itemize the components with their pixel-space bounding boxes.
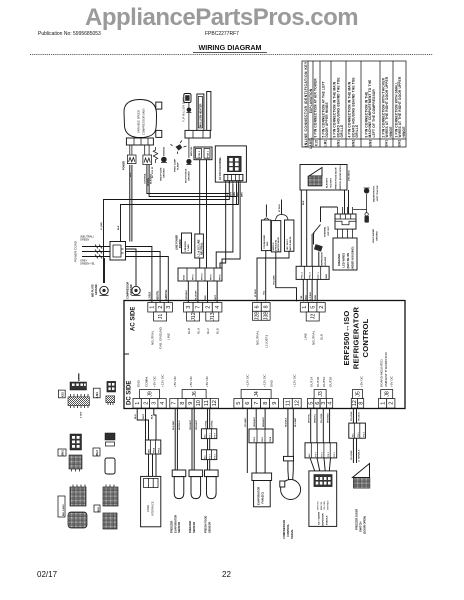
svg-text:PIN 8: PIN 8 bbox=[211, 274, 213, 280]
ground: mullion key symbol bbox=[186, 103, 191, 113]
svg-text:CONTROL: CONTROL bbox=[361, 318, 370, 357]
compressor connector block bbox=[126, 138, 153, 145]
water valve hot inlet bbox=[285, 220, 294, 251]
svg-text:EXPLANATION: EXPLANATION bbox=[309, 88, 313, 113]
svg-text:5: 5 bbox=[311, 306, 317, 309]
svg-text:LABEL: LABEL bbox=[309, 137, 313, 149]
ground: mid plate ground bbox=[92, 258, 109, 297]
connector J4 bbox=[234, 390, 279, 409]
svg-text:RED: RED bbox=[205, 295, 207, 300]
svg-text:SENSOR: SENSOR bbox=[192, 522, 196, 533]
svg-text:BRN/YEL: BRN/YEL bbox=[315, 413, 317, 423]
wire taco drop 2 bbox=[216, 184, 233, 268]
svg-text:BRN: BRN bbox=[241, 192, 243, 197]
svg-text:CONTROL: CONTROL bbox=[145, 173, 147, 184]
svg-text:PTC 1: PTC 1 bbox=[318, 272, 320, 279]
connector: fresh food sensor blocks bbox=[201, 429, 216, 460]
svg-text:BRN/YEL: BRN/YEL bbox=[191, 146, 193, 156]
DC pin labels bbox=[137, 351, 394, 387]
wire taco drop 3 bbox=[236, 184, 238, 205]
svg-text:MULLION HEATER: MULLION HEATER bbox=[199, 103, 203, 127]
svg-text:22: 22 bbox=[222, 570, 231, 579]
svg-text:+12V DC: +12V DC bbox=[246, 374, 250, 387]
svg-text:FIRST LAMP: FIRST LAMP bbox=[174, 158, 177, 172]
svg-text:PIN 4: PIN 4 bbox=[269, 436, 272, 442]
svg-text:4: 4 bbox=[215, 306, 221, 309]
compressor terminal square bottom bbox=[156, 130, 162, 137]
svg-text:PIN 3: PIN 3 bbox=[328, 451, 330, 457]
svg-text:WIRING DIAGRAM: WIRING DIAGRAM bbox=[198, 43, 261, 52]
svg-text:BLK: BLK bbox=[118, 225, 120, 230]
svg-text:GND: GND bbox=[137, 379, 141, 387]
svg-text:FREEZER: FREEZER bbox=[170, 521, 174, 533]
power plug connector symbol bbox=[123, 155, 137, 177]
heater: mullion heater element bbox=[197, 92, 211, 131]
svg-text:YEL/GRN: YEL/GRN bbox=[321, 413, 323, 423]
svg-text:PIN 6: PIN 6 bbox=[315, 451, 317, 457]
inline connector BN1 drawing bbox=[58, 434, 82, 472]
svg-text:PCB 2: PCB 2 bbox=[199, 150, 201, 157]
svg-text:FREEZER: FREEZER bbox=[185, 241, 187, 252]
svg-text:EVAPORATOR: EVAPORATOR bbox=[257, 487, 261, 505]
condenser fan bbox=[261, 218, 270, 251]
ground: compressor area ground dot bbox=[186, 159, 192, 183]
svg-text:COMM.: COMM. bbox=[145, 376, 149, 387]
svg-text:BH1: BH1 bbox=[95, 450, 99, 456]
wire mullion ground drop bbox=[188, 113, 190, 159]
svg-text:PIN 5: PIN 5 bbox=[210, 453, 212, 459]
svg-text:J4: J4 bbox=[254, 391, 260, 397]
svg-text:UNDER HOUSING): UNDER HOUSING) bbox=[351, 247, 355, 270]
svg-text:BLU: BLU bbox=[306, 295, 308, 300]
svg-text:OUT2B: OUT2B bbox=[328, 377, 332, 387]
inline connector BN3 drawing bbox=[94, 485, 118, 530]
svg-text:BN3: BN3 bbox=[98, 506, 100, 511]
wire compressor signal elbows bbox=[147, 165, 237, 197]
svg-text:BRN/WHT: BRN/WHT bbox=[263, 416, 265, 427]
inline connector BH1 drawing bbox=[93, 433, 115, 474]
svg-text:REFRIGERATOR: REFRIGERATOR bbox=[352, 306, 361, 369]
svg-text:2: 2 bbox=[143, 402, 149, 405]
svg-text:PTC 3: PTC 3 bbox=[302, 272, 304, 279]
svg-text:PIN 6: PIN 6 bbox=[215, 432, 217, 438]
svg-text:1: 1 bbox=[302, 306, 308, 309]
svg-text:LINE: LINE bbox=[167, 333, 171, 340]
svg-text:+5V DC: +5V DC bbox=[205, 375, 209, 387]
svg-text:THERMAL: THERMAL bbox=[324, 226, 327, 237]
svg-text:L1 (GN): L1 (GN) bbox=[101, 222, 103, 230]
connector: mullion plug bbox=[184, 94, 191, 103]
inline connector K15 drawing bbox=[58, 373, 89, 418]
svg-text:HOLDER: HOLDER bbox=[325, 256, 327, 266]
connector J13 bbox=[203, 303, 222, 322]
svg-text:J8: J8 bbox=[385, 391, 391, 397]
svg-text:J12: J12 bbox=[191, 312, 197, 320]
lamp: freezer lamp bbox=[171, 141, 187, 173]
svg-text:MB3: MB3 bbox=[326, 273, 328, 278]
connector J3B bbox=[261, 303, 270, 321]
label box: freezer load bbox=[182, 233, 192, 253]
svg-text:WHT/RED: WHT/RED bbox=[327, 413, 329, 423]
svg-text:BLU/GRY: BLU/GRY bbox=[196, 290, 198, 300]
svg-text:LOAD: LOAD bbox=[187, 244, 190, 251]
wire hot valve to J3B bbox=[266, 251, 289, 301]
svg-text:(YEL/BLU): (YEL/BLU) bbox=[349, 170, 351, 181]
svg-text:BLK/WHT: BLK/WHT bbox=[327, 177, 329, 188]
wire compressor power pair bbox=[130, 145, 132, 155]
fuse: defrost thermostat bbox=[314, 244, 327, 268]
svg-text:WATER VALVE: WATER VALVE bbox=[289, 236, 292, 251]
svg-text:2: 2 bbox=[389, 402, 395, 405]
svg-text:AppliancePartsPros.com: AppliancePartsPros.com bbox=[85, 4, 358, 31]
connector bar MB3 (right) bbox=[296, 266, 329, 279]
svg-text:PIN 1: PIN 1 bbox=[358, 431, 360, 437]
inline connector LM1 drawing bbox=[93, 381, 115, 405]
svg-text:LED WIRES: LED WIRES bbox=[342, 253, 346, 268]
svg-text:FREEZER: FREEZER bbox=[188, 521, 192, 533]
svg-text:J3B: J3B bbox=[264, 311, 270, 320]
header rule bbox=[30, 54, 433, 56]
svg-text:8: 8 bbox=[358, 402, 364, 405]
wire fan riser bbox=[265, 205, 267, 217]
svg-text:INTERFACE: INTERFACE bbox=[151, 501, 155, 516]
svg-text:K15: K15 bbox=[60, 392, 64, 397]
svg-text:NEUTRL: NEUTRL bbox=[157, 290, 160, 300]
svg-text:BH1: BH1 bbox=[385, 139, 389, 146]
svg-text:12: 12 bbox=[295, 400, 301, 406]
svg-text:DOOR UPPER HINGE: DOOR UPPER HINGE bbox=[325, 102, 329, 137]
svg-text:RLB: RLB bbox=[187, 328, 191, 334]
wire switch box drops bbox=[301, 190, 306, 266]
svg-text:GROUND: GROUND bbox=[164, 168, 166, 178]
ground: compressor ground bbox=[127, 262, 141, 299]
svg-text:COMPRESSOR: COMPRESSOR bbox=[282, 520, 286, 539]
svg-text:J13: J13 bbox=[210, 312, 216, 320]
svg-text:DC SIDE: DC SIDE bbox=[127, 381, 133, 405]
svg-text:12: 12 bbox=[212, 400, 218, 406]
svg-text:AC VOL 20: AC VOL 20 bbox=[151, 166, 154, 178]
svg-text:PIN 10: PIN 10 bbox=[202, 273, 204, 280]
connector J1 bbox=[148, 303, 173, 322]
switch box: fresh food door switch bbox=[300, 165, 347, 191]
svg-text:+5V DC: +5V DC bbox=[173, 375, 177, 387]
connector J5 bbox=[351, 390, 364, 409]
connector J8 bbox=[379, 390, 395, 409]
svg-text:11: 11 bbox=[286, 400, 292, 406]
svg-text:FRESH FOOD: FRESH FOOD bbox=[204, 516, 208, 533]
title WIRING DIAGRAM bbox=[193, 43, 267, 53]
connector J2 bbox=[300, 303, 325, 322]
label box: L1 and DC line bbox=[195, 234, 204, 258]
svg-text:8: 8 bbox=[180, 402, 186, 405]
svg-text:+12V DC: +12V DC bbox=[293, 374, 297, 387]
svg-text:RED/BLK: RED/BLK bbox=[286, 417, 288, 427]
svg-text:J9: J9 bbox=[147, 391, 153, 397]
svg-text:FREEZER DOOR: FREEZER DOOR bbox=[355, 509, 359, 530]
svg-text:+5V DC: +5V DC bbox=[390, 375, 394, 387]
svg-text:PIN 2: PIN 2 bbox=[334, 451, 336, 457]
svg-text:USER: USER bbox=[146, 505, 150, 512]
svg-text:NEUTRAL: NEUTRAL bbox=[151, 330, 155, 345]
wire compressor power drop bbox=[130, 165, 132, 242]
svg-text:OUT1B: OUT1B bbox=[316, 377, 320, 387]
svg-text:WHT/RED: WHT/RED bbox=[327, 500, 329, 510]
svg-text:WHT/YEL: WHT/YEL bbox=[308, 413, 310, 423]
svg-text:ERF2500↔ISO: ERF2500↔ISO bbox=[342, 311, 351, 366]
svg-text:MODULE: MODULE bbox=[327, 515, 329, 525]
svg-text:2: 2 bbox=[205, 306, 211, 309]
svg-text:AC TACO HOUSING: AC TACO HOUSING bbox=[219, 157, 222, 180]
wire cutout drop bbox=[311, 234, 313, 266]
svg-text:1: 1 bbox=[380, 402, 386, 405]
svg-text:1: 1 bbox=[135, 402, 141, 405]
switch: thermal cut-out bbox=[313, 207, 338, 245]
svg-text:+5V DC: +5V DC bbox=[189, 375, 193, 387]
svg-text:BN1 & BN2: BN1 & BN2 bbox=[63, 504, 65, 516]
connector block: door harness bbox=[335, 207, 356, 229]
svg-text:YEL/GRN: YEL/GRN bbox=[324, 501, 326, 510]
svg-text:LT BLU: LT BLU bbox=[310, 291, 312, 299]
svg-text:PIN 4: PIN 4 bbox=[153, 447, 156, 453]
svg-text:SENSOR: SENSOR bbox=[207, 522, 211, 533]
svg-text:5: 5 bbox=[236, 402, 242, 405]
svg-text:WHT/YEL: WHT/YEL bbox=[318, 500, 320, 510]
svg-text:LM1: LM1 bbox=[95, 392, 99, 398]
ground: heat plate ground bbox=[160, 147, 168, 181]
svg-text:GRILLE: GRILLE bbox=[340, 125, 344, 138]
svg-text:02/17: 02/17 bbox=[37, 570, 58, 579]
svg-text:J2B: J2B bbox=[255, 311, 261, 320]
svg-text:(MAY BE ON: (MAY BE ON bbox=[346, 253, 350, 269]
svg-text:6: 6 bbox=[255, 305, 261, 308]
svg-text:PIN 1: PIN 1 bbox=[262, 436, 264, 442]
svg-text:BLU: BLU bbox=[135, 414, 137, 419]
connector: UI harness block bbox=[145, 440, 160, 454]
svg-text:2: 2 bbox=[319, 306, 325, 309]
signal: compressor control signal bbox=[280, 408, 301, 539]
water valve middle bbox=[271, 221, 280, 252]
svg-text:HINGE: HINGE bbox=[389, 127, 393, 138]
svg-text:2: 2 bbox=[158, 306, 164, 309]
svg-text:(DOOR OPEN): (DOOR OPEN) bbox=[363, 516, 367, 534]
junction: heater channel splice bbox=[205, 133, 210, 138]
svg-text:ICE / WATER: ICE / WATER bbox=[318, 511, 321, 525]
wire bus upper bbox=[104, 181, 230, 283]
svg-text:NEUTRAL: NEUTRAL bbox=[200, 242, 204, 255]
svg-text:FRESH FOOD DOOR: FRESH FOOD DOOR bbox=[336, 167, 338, 189]
svg-text:HOT INLET: HOT INLET bbox=[287, 238, 289, 250]
compressor terminal square top bbox=[156, 102, 162, 109]
svg-text:GROUND: GROUND bbox=[189, 171, 191, 181]
svg-text:WHT: WHT bbox=[143, 413, 145, 419]
svg-text:CUT-OUT: CUT-OUT bbox=[328, 226, 330, 236]
svg-text:COMPRESSOR: COMPRESSOR bbox=[322, 252, 324, 268]
svg-text:BLK: BLK bbox=[303, 200, 305, 205]
thermistor: sensor-ff bbox=[204, 408, 219, 533]
svg-text:LM1: LM1 bbox=[324, 139, 328, 146]
thermistor: sensor-frz bbox=[188, 408, 203, 533]
board title ERF2500-ISO REFRIGERATOR CONTROL bbox=[342, 306, 370, 369]
inline connector BN1/BN2 drawing pair bbox=[58, 485, 87, 529]
svg-text:PIN 3: PIN 3 bbox=[254, 436, 256, 442]
switch: freezer door switch (door open) bbox=[349, 408, 370, 534]
resistor: AC line zigzag bbox=[151, 147, 158, 178]
svg-text:BLU/WHT: BLU/WHT bbox=[295, 417, 297, 427]
wire mid valve to J2 pin1 bbox=[276, 252, 297, 302]
svg-text:YEL: YEL bbox=[263, 290, 265, 295]
module: dispenser/water module bbox=[305, 408, 337, 526]
thermistor: sensor-frz-evap bbox=[170, 408, 186, 533]
svg-text:OUT2A: OUT2A bbox=[322, 376, 326, 387]
svg-text:LEFT YELLOW: LEFT YELLOW bbox=[377, 185, 379, 201]
svg-text:BH2: BH2 bbox=[398, 139, 402, 146]
connector J3 bbox=[308, 390, 334, 409]
wire cord leads bbox=[82, 245, 110, 259]
svg-text:GND: GND bbox=[270, 379, 274, 387]
svg-text:POWER: POWER bbox=[123, 161, 126, 170]
plug: power plug bbox=[110, 242, 126, 261]
svg-text:MCD: MCD bbox=[184, 275, 186, 280]
wire taco drop 1 bbox=[220, 184, 226, 268]
key: water front left yellow bbox=[353, 185, 379, 210]
svg-text:VARIABLE SPEED: VARIABLE SPEED bbox=[137, 110, 141, 133]
control board U1: ERF2500-ISO refrigerator control bbox=[124, 301, 405, 409]
svg-text:YEL: YEL bbox=[301, 295, 303, 300]
key: hole saver ground bbox=[365, 210, 379, 244]
AC pin labels bbox=[151, 326, 324, 349]
svg-text:Publication No: 5995685053: Publication No: 5995685053 bbox=[38, 31, 101, 37]
connector J12 bbox=[184, 303, 203, 322]
svg-text:HINGE: HINGE bbox=[402, 127, 406, 138]
svg-text:NEUTRAL: NEUTRAL bbox=[256, 330, 260, 345]
svg-text:CONDENSER: CONDENSER bbox=[264, 235, 266, 249]
connector J6 bbox=[170, 390, 219, 409]
svg-text:4: 4 bbox=[327, 402, 333, 405]
junction box: AC taco housing bbox=[215, 146, 246, 182]
svg-text:3: 3 bbox=[152, 402, 158, 405]
svg-text:YEL/GRN: YEL/GRN bbox=[351, 411, 353, 421]
svg-text:WHT/BLK: WHT/BLK bbox=[179, 420, 181, 430]
svg-text:7: 7 bbox=[196, 306, 202, 309]
svg-text:3: 3 bbox=[186, 306, 192, 309]
svg-text:POWER CORD: POWER CORD bbox=[74, 240, 78, 262]
svg-text:LINE: LINE bbox=[304, 333, 308, 340]
svg-text:J3: J3 bbox=[318, 391, 324, 397]
wires J9 to UI board bbox=[135, 408, 156, 440]
svg-text:6: 6 bbox=[245, 402, 251, 405]
wire taco leads with labels bbox=[226, 181, 244, 197]
svg-text:NEUTRAL: NEUTRAL bbox=[312, 330, 316, 345]
svg-text:GROUND: GROUND bbox=[130, 284, 133, 295]
svg-text:CAB. GROUND: CAB. GROUND bbox=[159, 326, 163, 349]
svg-text:BN3: BN3 bbox=[369, 139, 373, 146]
svg-text:K15: K15 bbox=[315, 140, 319, 146]
svg-text:RIGHT HINGE: RIGHT HINGE bbox=[186, 168, 188, 183]
wire plug to J1 pins bbox=[126, 247, 169, 303]
svg-text:BOARD: BOARD bbox=[179, 239, 182, 248]
svg-text:J5: J5 bbox=[355, 391, 361, 397]
board: user interface bbox=[141, 476, 161, 526]
svg-text:BLK: BLK bbox=[152, 414, 154, 419]
svg-text:SENSOR: SENSOR bbox=[177, 522, 181, 533]
box: freezer LED wires bbox=[333, 229, 357, 270]
svg-text:BLK/WHT: BLK/WHT bbox=[173, 420, 175, 430]
svg-text:J2: J2 bbox=[311, 314, 317, 320]
svg-text:LT BLU: LT BLU bbox=[279, 204, 281, 212]
connector bar: mullion hinge connector bbox=[185, 130, 210, 138]
wire bar to J2 bbox=[301, 279, 317, 301]
wire PCB drops to MB3 bar bbox=[200, 160, 207, 268]
svg-text:YEL/WHT: YEL/WHT bbox=[245, 417, 247, 427]
svg-text:PIN 3: PIN 3 bbox=[159, 447, 161, 453]
svg-text:BRN: BRN bbox=[315, 294, 317, 299]
svg-text:HOLE SAVER: HOLE SAVER bbox=[372, 229, 375, 243]
wire valve bracket bbox=[276, 215, 289, 221]
svg-text:BN1: BN1 bbox=[337, 139, 341, 146]
wire fan to J2B bbox=[257, 251, 266, 302]
svg-text:INLINE CONNECTOR IDENTIFICATIO: INLINE CONNECTOR IDENTIFICATION KEY bbox=[304, 61, 308, 147]
svg-text:FLAMP: FLAMP bbox=[177, 162, 180, 170]
svg-text:GRN/YEL: GRN/YEL bbox=[165, 289, 168, 300]
connector bar MB1 (left) bbox=[178, 268, 222, 281]
svg-text:GROUND: GROUND bbox=[95, 284, 98, 295]
svg-text:GRN/WHT: GRN/WHT bbox=[254, 416, 256, 427]
svg-text:J6: J6 bbox=[192, 391, 198, 397]
svg-text:YEL/BLK: YEL/BLK bbox=[359, 412, 361, 421]
svg-text:WATER VALVE: WATER VALVE bbox=[277, 236, 280, 251]
svg-text:SIGNAL: SIGNAL bbox=[290, 529, 294, 539]
svg-text:FAN (DC): FAN (DC) bbox=[261, 492, 265, 504]
compressor: variable speed compressor (INV) bbox=[124, 100, 157, 138]
svg-text:YEL/GRN: YEL/GRN bbox=[351, 450, 353, 460]
svg-text:LT GRN/BLK: LT GRN/BLK bbox=[359, 449, 361, 462]
svg-text:+5V DC: +5V DC bbox=[360, 375, 364, 387]
svg-text:PTC 2: PTC 2 bbox=[310, 272, 312, 279]
svg-text:DISPENSER: DISPENSER bbox=[323, 513, 325, 526]
svg-text:BN1: BN1 bbox=[61, 450, 65, 456]
svg-text:ORG/WHT: ORG/WHT bbox=[190, 419, 192, 430]
svg-text:PCB 1: PCB 1 bbox=[208, 150, 210, 157]
svg-text:8: 8 bbox=[264, 305, 270, 308]
svg-text:PIN 5: PIN 5 bbox=[322, 451, 324, 457]
svg-text:AMBIENT THERMISTOR: AMBIENT THERMISTOR bbox=[384, 351, 388, 387]
svg-text:FPBC2277RF7: FPBC2277RF7 bbox=[205, 31, 239, 37]
svg-text:AC SIDE: AC SIDE bbox=[131, 307, 137, 331]
svg-text:WATER FRONT: WATER FRONT bbox=[373, 185, 376, 202]
svg-text:BRN/YEL: BRN/YEL bbox=[321, 501, 323, 510]
svg-text:11: 11 bbox=[204, 400, 210, 406]
wire bar to J12/J13 bbox=[186, 281, 217, 303]
svg-text:7: 7 bbox=[172, 402, 178, 405]
wire bracket riser to bus bbox=[281, 200, 283, 215]
svg-text:L1 BLK: L1 BLK bbox=[149, 291, 152, 300]
svg-text:8: 8 bbox=[263, 402, 269, 405]
svg-text:9: 9 bbox=[188, 402, 194, 405]
svg-text:9 PIN CONNECTION AT AIR TOWER: 9 PIN CONNECTION AT AIR TOWER bbox=[314, 78, 318, 138]
svg-text:7: 7 bbox=[254, 402, 260, 405]
svg-text:OUT1A: OUT1A bbox=[310, 376, 314, 387]
svg-text:PIN 3: PIN 3 bbox=[210, 432, 212, 438]
svg-text:LEFT OF THE COMPRESSOR: LEFT OF THE COMPRESSOR bbox=[372, 89, 376, 138]
svg-text:YEL/GRN: YEL/GRN bbox=[274, 275, 276, 285]
svg-text:YEL/WHT: YEL/WHT bbox=[331, 177, 333, 188]
svg-text:+12V DC: +12V DC bbox=[161, 374, 165, 387]
svg-text:9: 9 bbox=[272, 402, 278, 405]
svg-text:GREEN: GREEN bbox=[80, 238, 89, 242]
svg-text:GROUND: GROUND bbox=[377, 231, 379, 241]
svg-text:BLB: BLB bbox=[216, 328, 220, 334]
table: inline connector identification key bbox=[302, 61, 406, 149]
